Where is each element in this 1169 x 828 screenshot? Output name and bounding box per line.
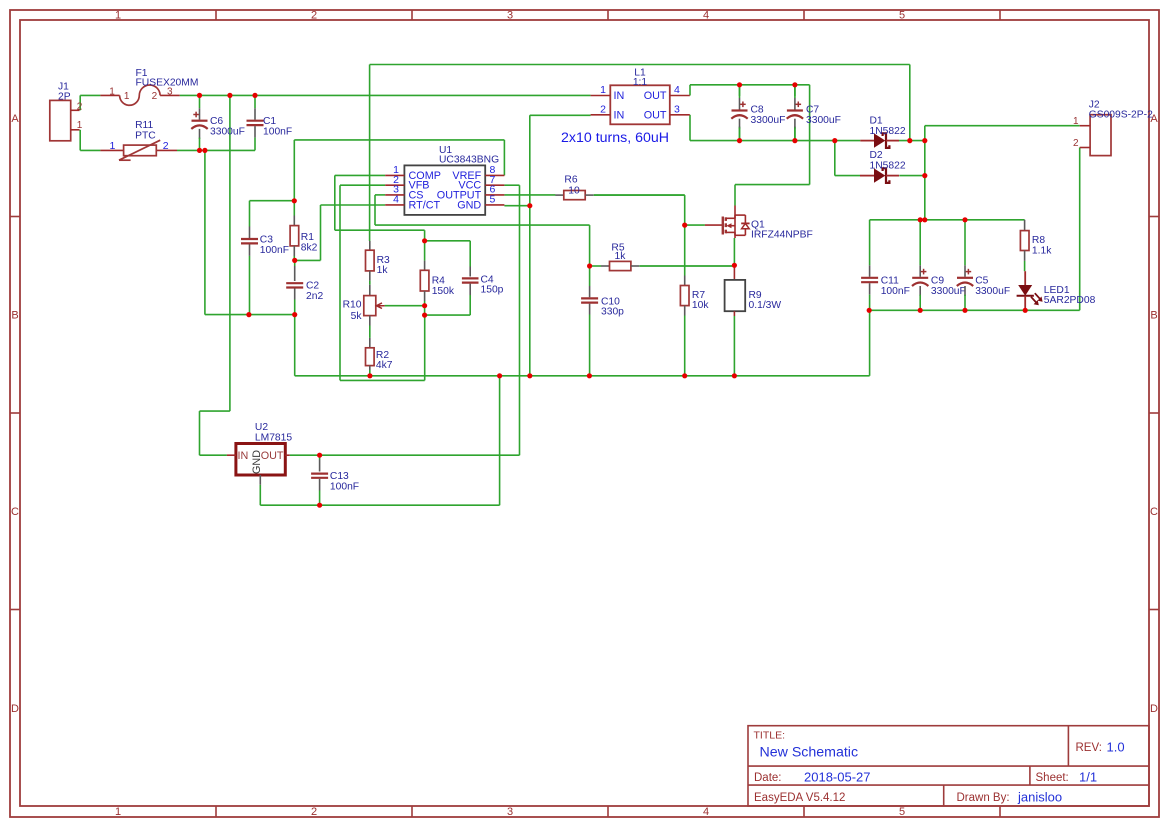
capacitor C2: [286, 260, 323, 301]
svg-text:C8: C8: [751, 104, 764, 115]
svg-text:2P: 2P: [58, 92, 71, 103]
wire C8 verticals: [739, 85, 741, 141]
diode D1: [860, 116, 906, 148]
svg-text:OUT: OUT: [644, 109, 667, 121]
wire J2 pin2 down to output bottom rail: [1025, 148, 1080, 311]
svg-text:C: C: [1150, 506, 1158, 518]
wire RT/CT net: R1 bottom to U1 pin4: [295, 205, 386, 260]
svg-text:B: B: [1150, 310, 1157, 322]
svg-text:1: 1: [77, 120, 83, 131]
connector J2: [1073, 99, 1153, 155]
wire R7 bottom to ground rail: [684, 316, 686, 376]
svg-text:A: A: [11, 113, 19, 125]
svg-text:C: C: [11, 506, 19, 518]
wire R6 to Q1 gate and R7: [594, 195, 705, 275]
svg-text:1k: 1k: [615, 251, 627, 262]
svg-text:330p: 330p: [601, 307, 624, 318]
capacitor C8: [731, 85, 785, 141]
wire R9 bottom to ground rail: [733, 316, 735, 376]
svg-text:PTC: PTC: [135, 131, 156, 142]
svg-text:2: 2: [311, 10, 317, 22]
svg-text:1: 1: [600, 84, 606, 96]
capacitor C10: [581, 266, 624, 318]
svg-text:C7: C7: [806, 104, 819, 115]
svg-text:10: 10: [568, 185, 580, 196]
resistor R5: [590, 242, 735, 270]
svg-text:REV:: REV:: [1076, 742, 1102, 754]
wire L1 pin3 to C8/C7 bottom rail to D1/D2 anodes: [690, 115, 860, 176]
wire rectified feed down to U2 IN: [200, 95, 230, 455]
svg-text:C3: C3: [260, 234, 273, 245]
title block: [748, 726, 1149, 806]
svg-text:U2: U2: [255, 422, 268, 433]
transformer L1: [591, 68, 690, 125]
wire R4 bottom segment: [424, 306, 426, 315]
svg-text:R1: R1: [301, 232, 314, 243]
svg-text:1.0: 1.0: [1107, 740, 1125, 755]
svg-text:EasyEDA V5.4.12: EasyEDA V5.4.12: [754, 792, 845, 804]
svg-text:10k: 10k: [692, 300, 709, 311]
svg-text:3300uF: 3300uF: [806, 115, 841, 126]
capacitor C1: [247, 95, 293, 150]
svg-text:1: 1: [110, 140, 116, 152]
svg-text:R11: R11: [135, 120, 153, 131]
wire VFB net: U1 pin2 loop to R4 bottom / C4 node: [340, 185, 425, 380]
wire U2 ground / C13 bottom to rail: [260, 376, 499, 505]
svg-text:1: 1: [1073, 116, 1079, 127]
svg-text:OUT: OUT: [644, 90, 667, 102]
wire C4 bottom link: [425, 295, 471, 315]
svg-text:100nF: 100nF: [263, 126, 292, 137]
wire OUTPUT net: U1 pin6 to R6: [504, 194, 555, 196]
svg-text:RT/CT: RT/CT: [409, 199, 441, 211]
wire R10 wiper to R4 bottom: [385, 305, 425, 307]
wire L1 pin4 to C8/C7 top rail to Q1 drain: [690, 85, 810, 206]
svg-text:4: 4: [674, 84, 680, 96]
MOSFET Q1 IRFZ44NPBF: [705, 206, 813, 241]
wire output cap bank top rail: [870, 219, 1025, 221]
svg-text:1: 1: [124, 91, 130, 102]
wire neutral drop to C3/C2 node: [205, 150, 295, 314]
svg-text:100nF: 100nF: [881, 286, 910, 297]
capacitor C13: [311, 455, 359, 505]
svg-text:1N5822: 1N5822: [870, 161, 906, 172]
svg-text:4: 4: [393, 194, 399, 206]
wire COMP net: U1 pin1 loop to R4 top / C4 top: [335, 175, 470, 266]
svg-text:2: 2: [311, 806, 317, 818]
svg-text:FUSEX20MM: FUSEX20MM: [136, 77, 199, 88]
wire R5 right to Q1 source / R9 top: [640, 265, 734, 267]
svg-text:3300uF: 3300uF: [975, 286, 1010, 297]
svg-text:2: 2: [600, 104, 606, 116]
resistor R6: [555, 175, 684, 200]
svg-text:2: 2: [163, 140, 169, 152]
wire R2 bottom to rail: [369, 370, 371, 376]
resistor R8: [1020, 220, 1052, 271]
svg-text:Date:: Date:: [754, 772, 782, 784]
svg-text:C1: C1: [263, 116, 276, 127]
svg-text:3300uF: 3300uF: [751, 115, 786, 126]
svg-text:C13: C13: [330, 471, 349, 482]
svg-text:150p: 150p: [481, 285, 504, 296]
svg-text:R10: R10: [343, 300, 362, 311]
PTC thermistor R11: [100, 120, 177, 160]
capacitor C4: [462, 267, 504, 296]
svg-text:GS009S-2P-2: GS009S-2P-2: [1089, 110, 1153, 121]
svg-text:C5: C5: [975, 275, 988, 286]
svg-text:100nF: 100nF: [260, 245, 289, 256]
wire D1 cathode to J2 pin1 and output rail: [899, 126, 1080, 220]
svg-text:D: D: [11, 703, 19, 715]
svg-text:B: B: [11, 310, 18, 322]
svg-text:Sheet:: Sheet:: [1036, 772, 1069, 784]
svg-text:TITLE:: TITLE:: [754, 730, 786, 742]
svg-text:IN: IN: [614, 90, 625, 102]
svg-text:150k: 150k: [432, 286, 455, 297]
svg-text:2x10 turns, 60uH: 2x10 turns, 60uH: [561, 130, 669, 146]
svg-text:R8: R8: [1032, 235, 1045, 246]
wire VREF net: U1 pin8 up and left to R1/C3 top: [250, 140, 505, 201]
svg-text:1/1: 1/1: [1079, 769, 1097, 784]
wire GND net: U1 pin5, L1 pin2, down to rail: [504, 115, 590, 376]
svg-text:5: 5: [899, 10, 905, 22]
resistor R7: [680, 276, 709, 316]
svg-text:3: 3: [507, 10, 513, 22]
wire output sense top run R3 riser to D1 cathode junction: [370, 65, 910, 242]
wire R10-R2 link: [369, 326, 371, 338]
svg-text:D: D: [1150, 703, 1158, 715]
svg-text:5k: 5k: [351, 311, 363, 322]
svg-text:R4: R4: [432, 276, 445, 287]
wire Q1 source down to R9: [733, 238, 735, 265]
fuse F1: [100, 68, 198, 105]
svg-text:2: 2: [1073, 138, 1079, 149]
svg-text:1:1: 1:1: [633, 77, 648, 88]
wire C10 bottom to ground rail: [589, 315, 591, 376]
svg-text:2018-05-27: 2018-05-27: [804, 769, 871, 784]
wire C7 verticals: [794, 85, 796, 141]
resistor R3: [366, 241, 391, 281]
capacitor C11: [861, 220, 910, 310]
svg-text:R6: R6: [564, 175, 577, 186]
svg-text:C6: C6: [210, 116, 223, 127]
svg-text:5AR2PD08: 5AR2PD08: [1044, 295, 1096, 306]
svg-text:4: 4: [703, 10, 709, 22]
wire AC neutral bottom rail from J1 pin1 through R11 to C1: [80, 130, 255, 151]
wire R3-R10 link: [369, 281, 371, 285]
wire VCC net: U1 pin7 down to U2 OUT line: [290, 185, 520, 455]
wire output cap bank bottom rail: [869, 309, 1025, 311]
wire CS net: U1 pin3 loop to R5/C10 node: [375, 195, 590, 266]
wire main ground rail: [295, 300, 870, 376]
svg-text:1N5822: 1N5822: [870, 126, 906, 137]
svg-text:1: 1: [109, 87, 115, 98]
svg-text:1: 1: [115, 10, 121, 22]
svg-text:5: 5: [490, 194, 496, 206]
svg-text:1: 1: [115, 806, 121, 818]
svg-text:IN: IN: [238, 450, 249, 462]
svg-text:Drawn By:: Drawn By:: [957, 792, 1010, 804]
resistor R2: [366, 338, 393, 371]
svg-text:8k2: 8k2: [301, 242, 318, 253]
capacitor C9: [912, 220, 966, 310]
svg-text:100nF: 100nF: [330, 482, 359, 493]
resistor R1: [290, 201, 318, 261]
svg-text:2n2: 2n2: [306, 291, 323, 302]
svg-text:0.1/3W: 0.1/3W: [749, 300, 782, 311]
capacitor C3: [241, 201, 289, 315]
svg-text:IN: IN: [614, 109, 625, 121]
svg-text:4k7: 4k7: [376, 360, 393, 371]
svg-text:3300uF: 3300uF: [931, 286, 966, 297]
capacitor C6: [191, 95, 245, 150]
svg-text:1k: 1k: [377, 265, 389, 276]
svg-text:3: 3: [507, 806, 513, 818]
power resistor R9: [725, 265, 782, 316]
connector J1: [50, 81, 83, 141]
svg-text:GND: GND: [457, 199, 481, 211]
voltage regulator U2 LM7815: [227, 422, 292, 485]
svg-text:UC3843BNG: UC3843BNG: [439, 154, 499, 165]
diode D2: [860, 150, 906, 183]
LED LED1: [1017, 271, 1096, 310]
svg-text:C2: C2: [306, 280, 319, 291]
svg-text:3300uF: 3300uF: [210, 126, 245, 137]
svg-text:1.1k: 1.1k: [1032, 246, 1052, 257]
svg-text:C11: C11: [881, 275, 899, 286]
capacitor C7: [787, 85, 841, 141]
svg-text:New Schematic: New Schematic: [760, 745, 859, 761]
svg-text:4: 4: [703, 806, 709, 818]
wire AC line top rail from J1 pin2 through F1 to L1 pin1: [80, 95, 590, 110]
IC U1 UC3843BNG: [385, 145, 504, 215]
svg-text:5: 5: [899, 806, 905, 818]
svg-text:OUT: OUT: [261, 450, 284, 462]
svg-text:GND: GND: [251, 450, 263, 474]
svg-text:C9: C9: [931, 275, 944, 286]
svg-text:2: 2: [77, 101, 83, 112]
capacitor C5: [957, 220, 1010, 310]
svg-text:IRFZ44NPBF: IRFZ44NPBF: [751, 230, 813, 241]
svg-text:janisloo: janisloo: [1017, 789, 1062, 804]
svg-text:LM7815: LM7815: [255, 433, 292, 444]
resistor R4: [420, 241, 455, 306]
potentiometer R10: [343, 285, 385, 326]
svg-text:3: 3: [674, 104, 680, 116]
svg-text:2: 2: [152, 91, 158, 102]
